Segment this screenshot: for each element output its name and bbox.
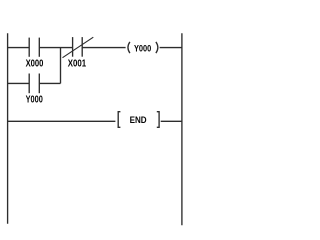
svg-text:X000: X000 bbox=[26, 59, 44, 70]
svg-text:END: END bbox=[130, 115, 147, 126]
svg-text:Y000: Y000 bbox=[134, 43, 151, 53]
svg-text:Y000: Y000 bbox=[26, 95, 44, 106]
svg-text:X001: X001 bbox=[68, 59, 87, 70]
